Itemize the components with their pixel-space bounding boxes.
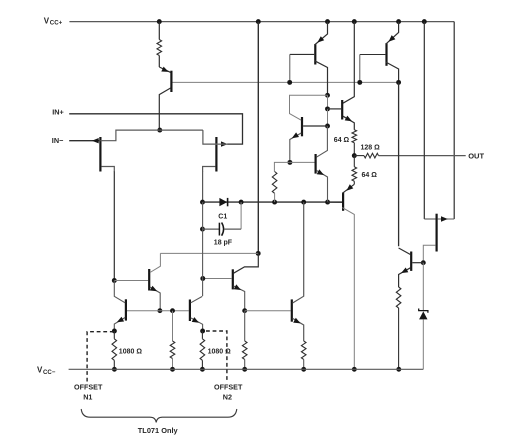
node rail/R10 <box>301 367 306 372</box>
node J2d/Q7 base <box>200 276 205 281</box>
wire col258 <box>257 22 259 254</box>
wire IN+ to J2 gate <box>69 114 242 144</box>
label 18 pF <box>214 240 233 247</box>
svg-text:IN−: IN− <box>52 136 64 145</box>
svg-text:64 Ω: 64 Ω <box>362 172 378 179</box>
resistor R7 64ohm <box>352 156 357 185</box>
node rail/R11 <box>396 367 401 372</box>
wire J3 drain from rail <box>423 22 425 219</box>
label 128ohm <box>361 144 381 151</box>
label 1080 right <box>208 348 232 355</box>
wire 162 to R5 <box>274 162 289 167</box>
node col327/Q10 base <box>325 124 330 129</box>
node row310/R4 <box>170 308 175 313</box>
capacitor C1 <box>203 223 242 236</box>
label IN- <box>52 136 64 145</box>
node bus/Q4 base <box>357 80 362 85</box>
transistor Q13 <box>328 184 355 369</box>
node Vcc+/Q3 <box>325 19 330 24</box>
transistor Q8 <box>149 253 160 310</box>
wire col327 b <box>327 109 329 126</box>
svg-text:OUT: OUT <box>468 151 484 160</box>
resistor R5 <box>272 167 277 202</box>
node col258/Q7 collector <box>256 251 261 256</box>
wire diode row <box>203 201 343 203</box>
label VCC- <box>37 366 56 376</box>
node J3/Q12 base <box>421 260 426 265</box>
transistor Q4 <box>360 22 399 83</box>
transistor Q11 <box>290 126 328 202</box>
node bus/Q3 base <box>287 80 292 85</box>
resistor R8 128ohm <box>354 153 378 158</box>
node rail/Q13 collector <box>352 367 357 372</box>
resistor R10 <box>301 341 306 369</box>
node rail/R3 <box>200 367 205 372</box>
svg-text:18 pF: 18 pF <box>214 240 233 247</box>
label C1 <box>218 213 227 220</box>
wire zener col <box>422 263 424 310</box>
node Q5e/R2 <box>112 329 117 334</box>
wire Vcc- rail <box>69 368 424 370</box>
jfet J2 <box>203 130 228 172</box>
wire C1 right <box>240 202 242 229</box>
label OFFSET N2 <box>214 383 243 402</box>
node Q8e/Q5 base <box>157 308 162 313</box>
pin arrow J1 gate <box>92 138 99 143</box>
node J1d/mirror <box>112 278 117 283</box>
resistor R2 1080 <box>112 331 117 369</box>
wire Q1 base bus <box>173 81 399 83</box>
dashed offset N1 <box>87 332 114 382</box>
resistor R9 <box>242 311 247 370</box>
pin arrow J2 gate <box>221 141 228 146</box>
svg-text:64 Ω: 64 Ω <box>334 137 350 144</box>
label IN+ <box>52 107 64 116</box>
node Q7 emitter/Q9 base <box>242 308 247 313</box>
label 64ohm lower <box>362 172 378 179</box>
transistor Q3 <box>290 22 328 96</box>
transistor Q7 <box>203 253 259 310</box>
node diode row/Q11 emitter <box>325 200 330 205</box>
svg-text:128 Ω: 128 Ω <box>361 144 381 151</box>
node col327/Q10 collector <box>325 93 330 98</box>
node bus end/Q4 collector <box>396 80 401 85</box>
wire col327 a <box>327 95 329 109</box>
node out/R6R7R8 <box>352 153 357 158</box>
svg-text:1080 Ω: 1080 Ω <box>119 348 143 355</box>
label OUT <box>468 151 484 160</box>
wire IN- to J1 gate <box>69 140 99 142</box>
resistor R4 <box>170 311 175 370</box>
wire J1 drain down <box>113 172 115 281</box>
wire tail row <box>159 129 203 131</box>
node diode row/C1 <box>239 200 244 205</box>
wire J2 drain down <box>202 172 204 203</box>
diode D1 <box>219 198 227 206</box>
label 64ohm upper <box>334 137 350 144</box>
svg-text:CC+: CC+ <box>50 20 63 27</box>
svg-text:N2: N2 <box>223 393 232 402</box>
jfet J1 <box>100 130 159 172</box>
node Vcc+/Q2 <box>352 19 357 24</box>
node rail/R9 <box>242 367 247 372</box>
label 1080 left <box>119 348 143 355</box>
wire Q8 base row <box>114 280 148 282</box>
transistor Q9 <box>292 202 304 341</box>
transistor Q1 <box>159 67 171 131</box>
node diode row/R5 <box>272 200 277 205</box>
node Vcc+/col258 <box>256 19 261 24</box>
dashed offset N2 <box>206 331 227 382</box>
svg-text:CC−: CC− <box>43 369 56 376</box>
label VCC+ <box>44 16 63 26</box>
brace TL071 only <box>81 409 237 422</box>
resistor R11 <box>396 287 401 369</box>
node diode row/Q9 collector <box>301 200 306 205</box>
svg-text:N1: N1 <box>83 393 92 402</box>
transistor Q2 <box>328 22 355 130</box>
wire Vcc+ rail <box>69 22 454 219</box>
node 290/162 <box>287 160 292 165</box>
node rail/R2 <box>112 367 117 372</box>
svg-text:OFFSET: OFFSET <box>214 383 243 392</box>
wire 253 row <box>160 252 258 254</box>
transistor Q5 <box>114 281 160 332</box>
node tail <box>157 128 162 133</box>
label OFFSET N1 <box>74 383 103 402</box>
svg-text:TL071 Only: TL071 Only <box>138 426 179 435</box>
wire Q4 collector down <box>398 82 400 246</box>
diode D2 zener <box>419 309 428 370</box>
node Vcc+/Q4 <box>396 19 401 24</box>
resistor R1 <box>157 22 162 67</box>
wire J2d to Q6 <box>202 202 204 296</box>
svg-text:OFFSET: OFFSET <box>74 383 103 392</box>
node J2d/diode row <box>200 200 205 205</box>
node Vcc+/R1 <box>157 19 162 24</box>
transistor Q10 <box>290 95 328 162</box>
resistor R6 64ohm <box>352 130 357 156</box>
svg-text:C1: C1 <box>218 213 227 220</box>
wire OUT <box>379 155 466 157</box>
jfet J3 <box>423 214 454 261</box>
node C1 left top <box>200 227 205 232</box>
node col327/Q2 base <box>325 106 330 111</box>
resistor R3 1080 <box>200 331 205 369</box>
node rail/R4 <box>170 367 175 372</box>
svg-text:IN+: IN+ <box>52 107 64 116</box>
node Vcc+/J3 <box>422 19 427 24</box>
transistor Q12 <box>399 248 424 287</box>
transistor Q6 <box>190 296 203 331</box>
wire Q9 base row <box>245 310 291 312</box>
label TL071 Only <box>138 426 179 435</box>
pin arrow J3 gate <box>441 216 448 221</box>
wire mirror base row <box>160 310 189 312</box>
node Q6e/R3 <box>200 329 205 334</box>
